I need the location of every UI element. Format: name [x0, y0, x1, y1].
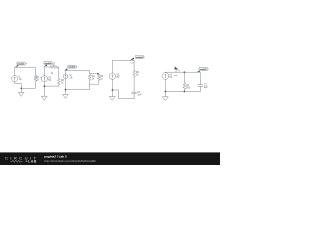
- logo zigzag: [11, 160, 23, 162]
- label node5 text: [174, 74, 177, 77]
- svg-text:1A: 1A: [19, 78, 22, 81]
- resistor R6: [133, 70, 136, 78]
- label R3 value: [61, 80, 65, 85]
- label I3 value: [70, 75, 73, 80]
- resistor R5: [97, 74, 100, 80]
- node flag VA: [15, 65, 19, 67]
- label V2 value: [40, 77, 52, 82]
- junction circuit2: [44, 85, 46, 87]
- wire top circuit2: [45, 67, 59, 77]
- svg-text:≡LAB: ≡LAB: [26, 160, 38, 164]
- node flag VD: [130, 57, 134, 60]
- ground circuit3: [63, 94, 69, 98]
- label C1 value: [137, 92, 142, 97]
- label R6 value: [136, 72, 140, 77]
- wire top circuit3: [66, 71, 99, 75]
- svg-text:1k: 1k: [51, 73, 54, 75]
- junction circuit3 bottom: [65, 89, 67, 91]
- label V4 value: [117, 75, 121, 80]
- svg-text:1uF: 1uF: [137, 95, 142, 97]
- junction circuit5 top: [184, 71, 186, 73]
- resistor R7: [183, 72, 186, 91]
- svg-text:nodo5: nodo5: [200, 69, 207, 71]
- svg-text:1k: 1k: [92, 79, 95, 81]
- svg-text:5V: 5V: [117, 77, 120, 79]
- junction circuit3 top: [97, 73, 99, 75]
- wire bottom circuit3: [66, 79, 99, 95]
- node flag VC: [64, 68, 67, 70]
- capacitor C2: [198, 85, 203, 92]
- current source I3: [63, 74, 68, 79]
- svg-text:5V: 5V: [48, 80, 51, 82]
- label node4 text: [131, 61, 134, 64]
- wire bottom-left circuit1: [15, 82, 22, 93]
- svg-text:nodo1: nodo1: [18, 64, 25, 66]
- label R7 value: [186, 85, 191, 90]
- svg-text:http://circuitlab.com/c6rw3s/5: http://circuitlab.com/c6rw3s/5p62vtq8k/: [44, 159, 96, 163]
- svg-text:1k: 1k: [100, 79, 103, 81]
- ground circuit2: [42, 96, 48, 100]
- voltage source V4: [109, 73, 115, 79]
- voltage source V5: [162, 73, 169, 80]
- wire bottom circuit4: [112, 79, 134, 98]
- svg-text:nodo2: nodo2: [45, 63, 52, 65]
- label V5 value: [169, 75, 173, 80]
- label C2 value: [204, 84, 209, 89]
- label R1 value: [36, 77, 40, 81]
- resistor R1: [34, 75, 37, 81]
- wire bottom-right circuit1: [21, 81, 35, 88]
- current source I1: [12, 76, 18, 82]
- capacitor C1: [132, 78, 137, 99]
- svg-text:nodo3: nodo3: [69, 67, 76, 69]
- resistor R4: [88, 74, 91, 81]
- junction circuit5 bottom-right: [184, 91, 186, 93]
- ground circuit5: [163, 97, 169, 101]
- wire top circuit5: [165, 72, 200, 84]
- svg-text:1A: 1A: [70, 77, 73, 80]
- junction circuit4: [112, 89, 114, 91]
- svg-text:1k: 1k: [136, 74, 139, 76]
- node flag small out: [175, 67, 180, 72]
- resistor R2 (series, horizontal): [50, 66, 58, 69]
- svg-text:1k: 1k: [36, 79, 39, 81]
- wire top circuit4: [112, 60, 134, 73]
- label R2 value: [51, 64, 56, 75]
- voltage source V2: [41, 76, 47, 82]
- svg-text:1uF: 1uF: [204, 87, 209, 89]
- label I1 value: [19, 76, 22, 81]
- svg-text:500: 500: [186, 88, 191, 90]
- node flag VE box: [197, 71, 200, 73]
- svg-text:5V: 5V: [169, 77, 172, 79]
- ground circuit1: [19, 92, 25, 96]
- wire bottom circuit5: [165, 79, 200, 97]
- label R4 value: [92, 76, 96, 80]
- node flag VB: [44, 64, 47, 67]
- svg-text:nodo4: nodo4: [136, 56, 143, 59]
- label R5 value: [100, 76, 104, 80]
- resistor R3 (shunt): [57, 77, 60, 86]
- ground circuit4: [110, 96, 116, 100]
- junction circuit5 bottom-left: [165, 91, 167, 93]
- svg-text:2k: 2k: [61, 83, 64, 85]
- svg-text:out: out: [131, 61, 134, 64]
- junction circuit1: [20, 87, 22, 89]
- footer bar: [0, 152, 220, 165]
- wire top circuit1: [15, 67, 36, 75]
- svg-text:out: out: [174, 74, 177, 77]
- wire bottom circuit2: [44, 82, 58, 96]
